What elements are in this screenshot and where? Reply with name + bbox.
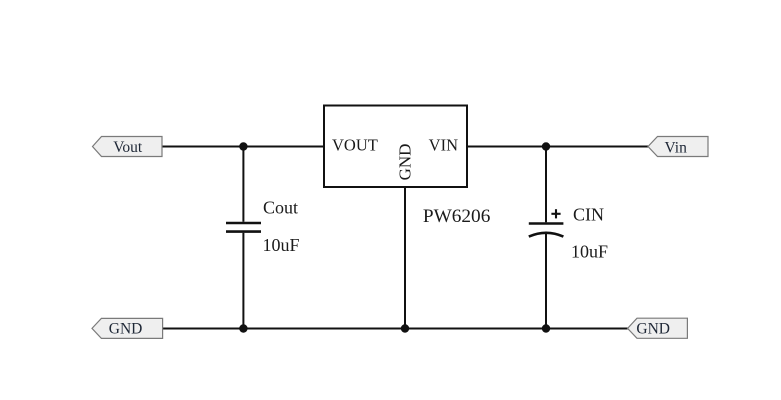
svg-text:Vin: Vin xyxy=(665,139,688,156)
svg-text:VOUT: VOUT xyxy=(332,136,378,155)
svg-text:Cout: Cout xyxy=(263,198,298,218)
svg-text:VIN: VIN xyxy=(429,136,458,155)
svg-text:CIN: CIN xyxy=(573,205,604,225)
svg-text:10uF: 10uF xyxy=(263,235,300,255)
svg-text:GND: GND xyxy=(636,320,670,337)
svg-text:PW6206: PW6206 xyxy=(423,206,491,227)
svg-text:GND: GND xyxy=(396,144,415,181)
svg-text:Vout: Vout xyxy=(113,139,143,156)
svg-text:10uF: 10uF xyxy=(571,242,608,262)
svg-text:GND: GND xyxy=(109,321,143,338)
